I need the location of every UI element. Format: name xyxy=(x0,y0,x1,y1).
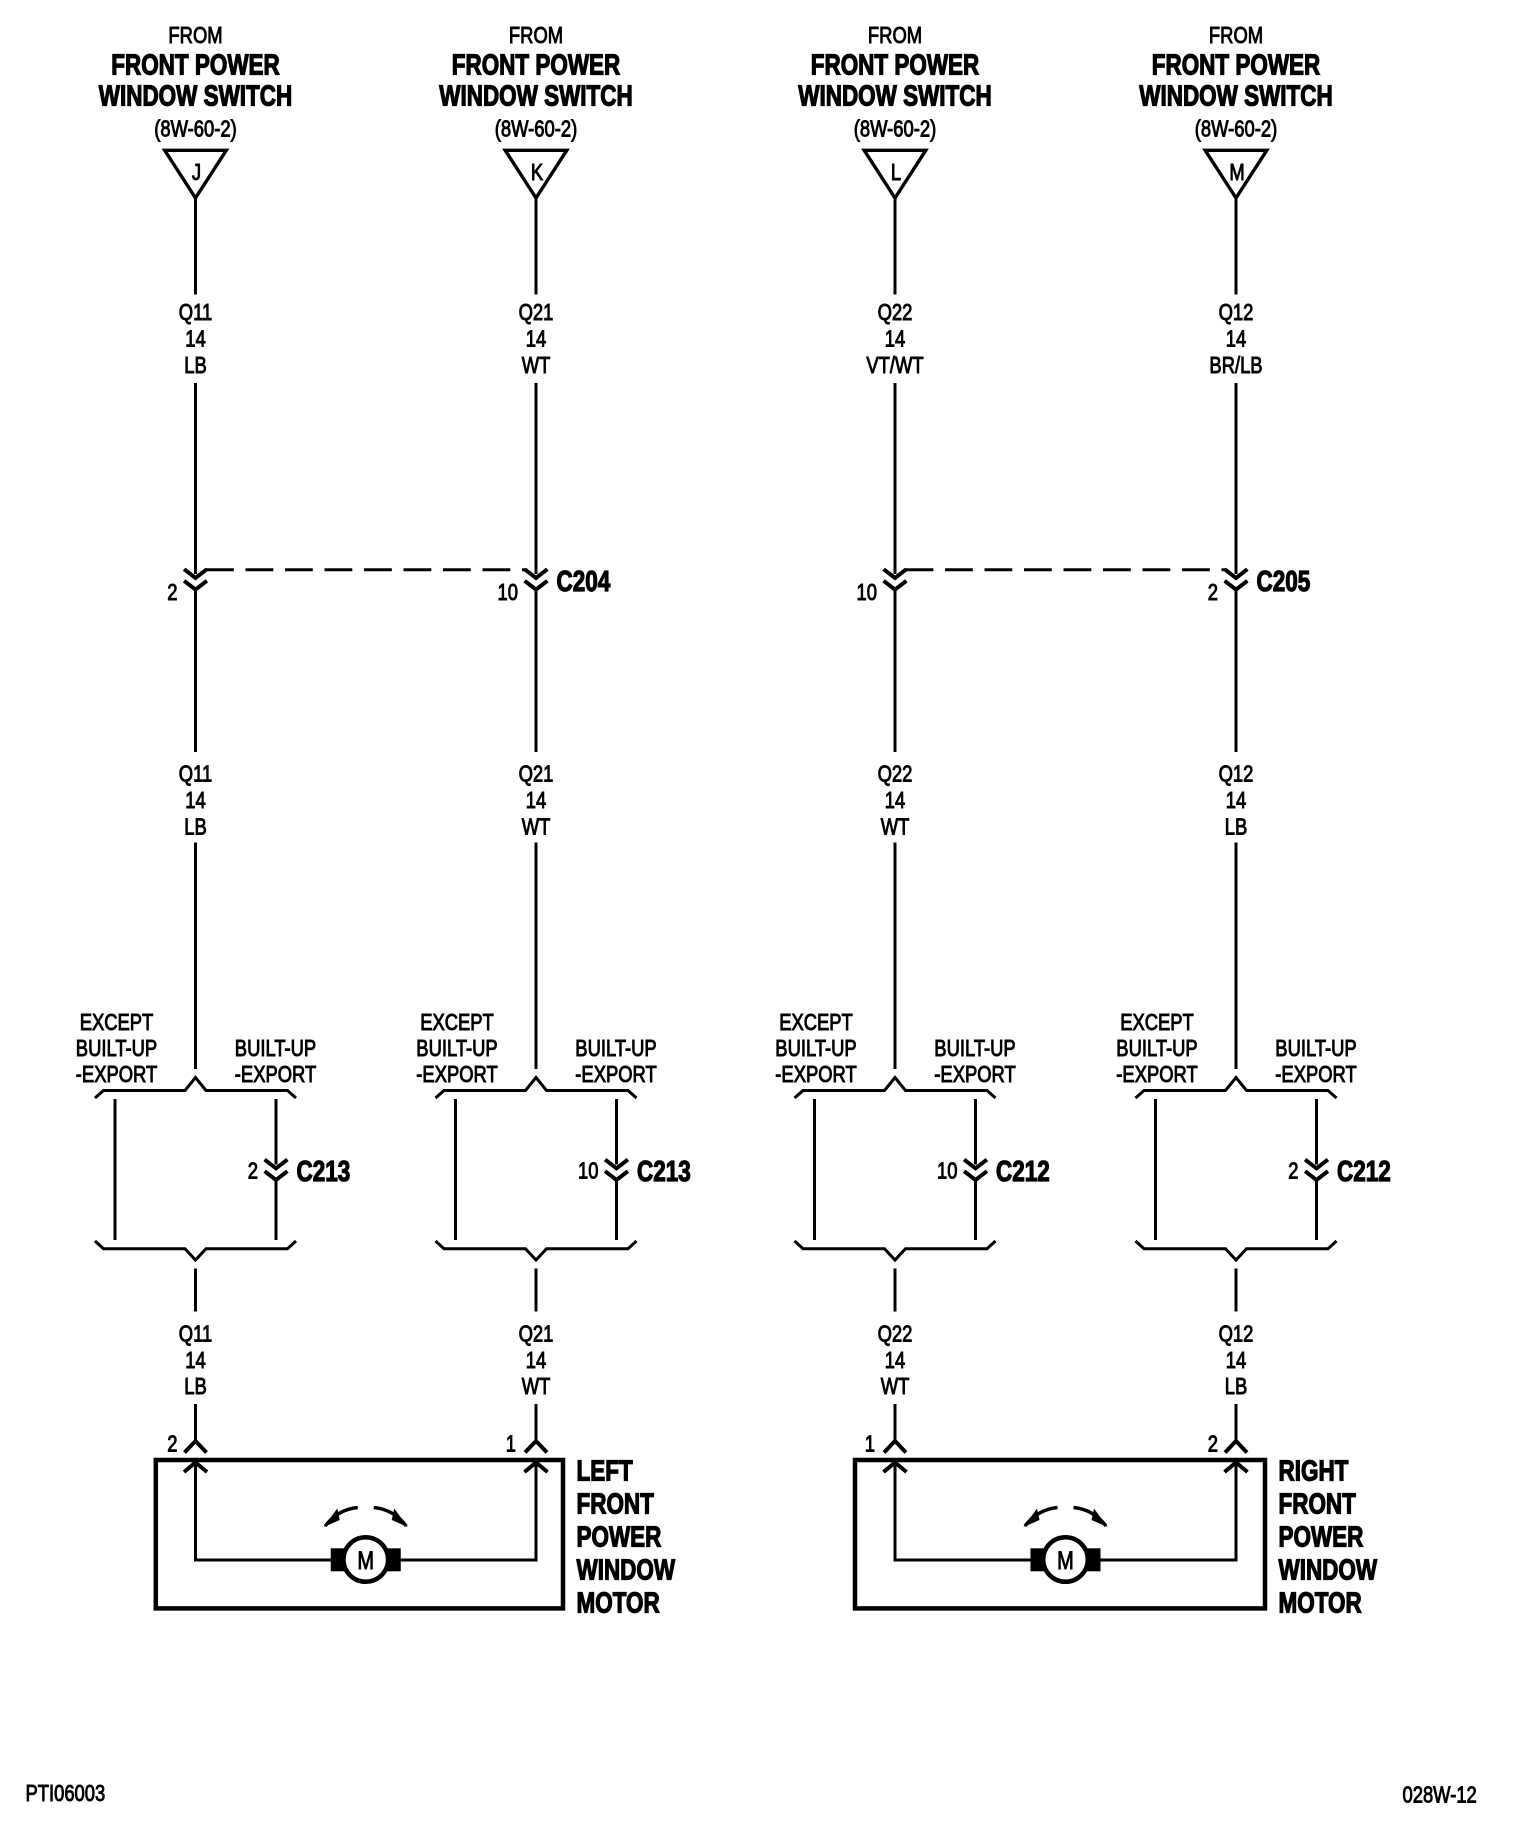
option label EXCEPT BUILT-UP -EXPORT col 3 xyxy=(775,1010,857,1087)
svg-text:028W-12: 028W-12 xyxy=(1403,1783,1477,1808)
svg-text:(8W-60-2): (8W-60-2) xyxy=(495,117,577,142)
svg-text:PTI06003: PTI06003 xyxy=(26,1781,106,1806)
svg-text:14: 14 xyxy=(526,788,546,813)
dashed wire C205 connector row (cols 3-4) xyxy=(906,568,1226,571)
motor pin symbol col 1 xyxy=(185,1441,207,1453)
svg-text:Q11: Q11 xyxy=(179,300,212,325)
split brace (top) col 1 xyxy=(95,1078,296,1099)
wire col 4: connector row to second label xyxy=(1235,590,1238,752)
svg-text:14: 14 xyxy=(885,788,905,813)
wire col 2: merge brace to third label xyxy=(535,1269,538,1312)
svg-text:FROM: FROM xyxy=(509,23,563,48)
svg-text:WINDOW SWITCH: WINDOW SWITCH xyxy=(798,81,991,112)
svg-text:FROM: FROM xyxy=(168,23,222,48)
rotation arrow right (right front motor) xyxy=(1074,1508,1108,1528)
connector name C213 col 2 xyxy=(637,1156,691,1187)
option label BUILT-UP -EXPORT col 1 xyxy=(235,1036,317,1087)
wire label Q12 14 LB (lower) xyxy=(1219,1322,1254,1400)
wire col 3: triangle L to first label xyxy=(894,198,897,295)
svg-text:14: 14 xyxy=(885,327,905,352)
svg-text:14: 14 xyxy=(185,1348,205,1373)
pin number 2 at connector row col 4 xyxy=(1208,580,1218,605)
branch wire (built-up-export) upper col 4 xyxy=(1315,1099,1318,1165)
svg-text:2: 2 xyxy=(1208,1432,1218,1457)
split brace (top) col 2 xyxy=(436,1078,637,1099)
wire label Q11 14 LB (upper) xyxy=(179,300,212,378)
svg-text:J: J xyxy=(192,160,201,185)
svg-text:BR/LB: BR/LB xyxy=(1209,353,1262,378)
sheet code PTI06003 xyxy=(26,1781,106,1806)
connector symbol at C205 col 3 xyxy=(884,569,907,589)
right front power window motor box outline xyxy=(855,1460,1265,1608)
off-page connector triangle M xyxy=(1205,150,1267,198)
option label BUILT-UP -EXPORT col 2 xyxy=(575,1036,657,1087)
svg-text:POWER: POWER xyxy=(577,1522,662,1553)
svg-text:WINDOW: WINDOW xyxy=(1279,1555,1378,1586)
wire label Q12 14 LB (middle) xyxy=(1219,762,1254,840)
pin number 2 at C212 col 4 xyxy=(1288,1159,1298,1184)
option label EXCEPT BUILT-UP -EXPORT col 1 xyxy=(76,1010,158,1087)
svg-text:14: 14 xyxy=(885,1348,905,1373)
motor pin symbol col 3 xyxy=(884,1441,906,1453)
wire inside motor box at x=536 xyxy=(535,1463,538,1561)
wire inside motor box at x=195.5 xyxy=(194,1463,197,1561)
motor pin symbol col 2 xyxy=(525,1441,547,1453)
svg-text:2: 2 xyxy=(1208,580,1218,605)
wire label Q22 14 WT (lower) xyxy=(878,1322,913,1400)
svg-text:10: 10 xyxy=(498,580,518,605)
connector symbol at C212 col 3 xyxy=(964,1160,987,1180)
svg-text:Q11: Q11 xyxy=(179,762,212,787)
svg-text:Q22: Q22 xyxy=(878,300,913,325)
svg-text:10: 10 xyxy=(937,1159,957,1184)
pin number 2 at motor col 1 xyxy=(167,1432,177,1457)
svg-text:C213: C213 xyxy=(297,1156,351,1187)
svg-text:BUILT-UP: BUILT-UP xyxy=(775,1036,856,1061)
svg-text:14: 14 xyxy=(185,327,205,352)
svg-text:POWER: POWER xyxy=(1279,1522,1364,1553)
branch wire (built-up-export) lower col 3 xyxy=(974,1180,977,1240)
svg-text:BUILT-UP: BUILT-UP xyxy=(1275,1036,1356,1061)
svg-text:Q21: Q21 xyxy=(519,762,554,787)
svg-text:-EXPORT: -EXPORT xyxy=(775,1062,857,1087)
svg-text:WT: WT xyxy=(522,815,551,840)
svg-text:BUILT-UP: BUILT-UP xyxy=(416,1036,497,1061)
wire label Q12 14 BR/LB (upper) xyxy=(1209,300,1262,378)
header label FROM FRONT POWER WINDOW SWITCH (8W-60-2) col 4 xyxy=(1139,23,1332,142)
wire col 2: label to connector row xyxy=(535,383,538,574)
component name RIGHT POWER WINDOW MOTOR xyxy=(1279,1456,1378,1619)
option label EXCEPT BUILT-UP -EXPORT col 2 xyxy=(416,1010,498,1087)
component name LEFT POWER WINDOW MOTOR xyxy=(577,1456,676,1619)
svg-text:FRONT POWER: FRONT POWER xyxy=(111,50,280,81)
branch wire (except built-up-export) col 2 xyxy=(454,1099,457,1240)
wire label Q22 14 VT/WT (upper) xyxy=(866,300,923,378)
wire inside motor box: left horizontal xyxy=(194,1559,345,1562)
svg-text:FRONT POWER: FRONT POWER xyxy=(1152,50,1321,81)
wire col 2: second label to split brace xyxy=(535,843,538,1070)
svg-text:LB: LB xyxy=(1225,815,1248,840)
svg-text:Q12: Q12 xyxy=(1219,1322,1254,1347)
wire col 3: second label to split brace xyxy=(894,843,897,1070)
branch wire (except built-up-export) col 3 xyxy=(813,1099,816,1240)
svg-text:14: 14 xyxy=(1226,327,1246,352)
svg-text:-EXPORT: -EXPORT xyxy=(235,1062,317,1087)
svg-text:LB: LB xyxy=(184,1374,207,1399)
option label BUILT-UP -EXPORT col 3 xyxy=(934,1036,1016,1087)
branch wire (built-up-export) upper col 1 xyxy=(275,1099,278,1165)
rotation arrow right (left front motor) xyxy=(374,1508,408,1528)
wire label Q21 14 WT (upper) xyxy=(519,300,554,378)
svg-text:-EXPORT: -EXPORT xyxy=(575,1062,657,1087)
svg-text:1: 1 xyxy=(506,1432,516,1457)
svg-text:LB: LB xyxy=(184,815,207,840)
split brace (top) col 3 xyxy=(795,1078,996,1099)
svg-text:BUILT-UP: BUILT-UP xyxy=(235,1036,316,1061)
svg-text:Q21: Q21 xyxy=(519,300,554,325)
wire col 3: third label to motor pin xyxy=(894,1404,897,1441)
merge brace (bottom) col 4 xyxy=(1136,1241,1337,1260)
svg-text:MOTOR: MOTOR xyxy=(1279,1588,1362,1619)
svg-text:C212: C212 xyxy=(996,1156,1050,1187)
branch wire (built-up-export) upper col 2 xyxy=(615,1099,618,1165)
svg-text:C205: C205 xyxy=(1257,566,1311,597)
motor pin symbol col 4 xyxy=(1225,1441,1247,1453)
svg-text:BUILT-UP: BUILT-UP xyxy=(1116,1036,1197,1061)
svg-text:Q11: Q11 xyxy=(179,1322,212,1347)
svg-text:FROM: FROM xyxy=(868,23,922,48)
svg-text:M: M xyxy=(1057,1547,1074,1575)
svg-text:14: 14 xyxy=(1226,788,1246,813)
motor box entry connector at x=895 xyxy=(884,1463,907,1473)
svg-text:LB: LB xyxy=(1225,1374,1248,1399)
svg-text:2: 2 xyxy=(167,1432,177,1457)
wire col 4: third label to motor pin xyxy=(1235,1404,1238,1441)
wire col 2: third label to motor pin xyxy=(535,1404,538,1441)
off-page connector triangle L xyxy=(864,150,926,198)
wire inside motor box at x=895 xyxy=(894,1463,897,1561)
branch wire (built-up-export) lower col 1 xyxy=(275,1180,278,1240)
svg-text:(8W-60-2): (8W-60-2) xyxy=(854,117,936,142)
svg-text:MOTOR: MOTOR xyxy=(577,1588,660,1619)
pin number 1 at motor col 2 xyxy=(506,1432,516,1457)
svg-text:EXCEPT: EXCEPT xyxy=(420,1010,494,1035)
pin number 10 at C212 col 3 xyxy=(937,1159,957,1184)
svg-text:M: M xyxy=(357,1547,374,1575)
svg-text:Q22: Q22 xyxy=(878,1322,913,1347)
svg-text:14: 14 xyxy=(1226,1348,1246,1373)
pin number 2 at C213 col 1 xyxy=(248,1159,258,1184)
rotation arrow left (right front motor) xyxy=(1024,1508,1058,1528)
wire label Q21 14 WT (middle) xyxy=(519,762,554,840)
header label FROM FRONT POWER WINDOW SWITCH (8W-60-2) col 2 xyxy=(439,23,632,142)
svg-text:-EXPORT: -EXPORT xyxy=(416,1062,498,1087)
rotation arrow left (left front motor) xyxy=(324,1508,358,1528)
wire label Q21 14 WT (lower) xyxy=(519,1322,554,1400)
motor M symbol (right front) xyxy=(1031,1537,1101,1582)
svg-text:M: M xyxy=(1229,160,1244,185)
wire col 3: merge brace to third label xyxy=(894,1269,897,1312)
svg-text:L: L xyxy=(891,160,901,185)
merge brace (bottom) col 3 xyxy=(795,1241,996,1260)
wire label Q11 14 LB (lower) xyxy=(179,1322,212,1400)
pin number 10 at connector row col 2 xyxy=(498,580,518,605)
wire col 4: second label to split brace xyxy=(1235,843,1238,1070)
left front power window motor box outline xyxy=(156,1460,563,1608)
branch wire (built-up-export) lower col 4 xyxy=(1315,1180,1318,1240)
connector name C212 col 4 xyxy=(1337,1156,1391,1187)
connector symbol at C204 col 1 xyxy=(184,569,207,589)
wire col 2: triangle K to first label xyxy=(535,198,538,295)
svg-text:14: 14 xyxy=(526,327,546,352)
wire col 4: label to connector row xyxy=(1235,383,1238,574)
branch wire (except built-up-export) col 1 xyxy=(114,1099,117,1240)
svg-text:(8W-60-2): (8W-60-2) xyxy=(154,117,236,142)
svg-text:LEFT: LEFT xyxy=(577,1456,633,1487)
svg-text:FROM: FROM xyxy=(1209,23,1263,48)
svg-text:EXCEPT: EXCEPT xyxy=(1120,1010,1194,1035)
dashed wire C204 connector row (cols 1-2) xyxy=(206,568,525,571)
connector symbol at C204 col 2 xyxy=(525,569,548,589)
connector name C205 xyxy=(1257,566,1311,597)
svg-text:-EXPORT: -EXPORT xyxy=(76,1062,158,1087)
wire label Q11 14 LB (middle) xyxy=(179,762,212,840)
motor M symbol (left front) xyxy=(331,1537,401,1582)
svg-text:(8W-60-2): (8W-60-2) xyxy=(1195,117,1277,142)
svg-text:Q12: Q12 xyxy=(1219,762,1254,787)
svg-text:FRONT POWER: FRONT POWER xyxy=(452,50,621,81)
motor box entry connector at x=1236 xyxy=(1225,1463,1248,1473)
svg-text:2: 2 xyxy=(167,580,177,605)
svg-text:2: 2 xyxy=(248,1159,258,1184)
svg-text:RIGHT: RIGHT xyxy=(1279,1456,1349,1487)
svg-text:2: 2 xyxy=(1288,1159,1298,1184)
svg-text:-EXPORT: -EXPORT xyxy=(934,1062,1016,1087)
svg-text:C213: C213 xyxy=(637,1156,691,1187)
svg-text:K: K xyxy=(531,160,543,185)
wire inside motor box: right horizontal xyxy=(387,1559,538,1562)
svg-text:BUILT-UP: BUILT-UP xyxy=(575,1036,656,1061)
svg-text:WT: WT xyxy=(522,353,551,378)
sheet code 028W-12 xyxy=(1403,1783,1477,1808)
motor box entry connector at x=195.5 xyxy=(184,1463,207,1473)
svg-text:Q21: Q21 xyxy=(519,1322,554,1347)
svg-text:14: 14 xyxy=(526,1348,546,1373)
split brace (top) col 4 xyxy=(1136,1078,1337,1099)
wire col 3: connector row to second label xyxy=(894,590,897,752)
pin number 2 at connector row col 1 xyxy=(167,580,177,605)
svg-text:EXCEPT: EXCEPT xyxy=(779,1010,853,1035)
pin number 1 at motor col 3 xyxy=(865,1432,875,1457)
connector symbol at C213 col 2 xyxy=(605,1160,628,1180)
connector name C213 col 1 xyxy=(297,1156,351,1187)
wire col 4: triangle M to first label xyxy=(1235,198,1238,295)
svg-text:C212: C212 xyxy=(1337,1156,1391,1187)
wire label Q22 14 WT (middle) xyxy=(878,762,913,840)
wire inside motor box: left horizontal xyxy=(894,1559,1045,1562)
wire col 4: merge brace to third label xyxy=(1235,1269,1238,1312)
svg-text:LB: LB xyxy=(184,353,207,378)
merge brace (bottom) col 1 xyxy=(95,1241,296,1260)
svg-text:WT: WT xyxy=(881,815,910,840)
wire col 1: label to connector row xyxy=(194,383,197,574)
svg-text:FRONT: FRONT xyxy=(1279,1489,1357,1520)
svg-text:10: 10 xyxy=(578,1159,598,1184)
pin number 2 at motor col 4 xyxy=(1208,1432,1218,1457)
wire col 1: second label to split brace xyxy=(194,843,197,1070)
connector name C212 col 3 xyxy=(996,1156,1050,1187)
pin number 10 at C213 col 2 xyxy=(578,1159,598,1184)
branch wire (built-up-export) lower col 2 xyxy=(615,1180,618,1240)
svg-text:Q22: Q22 xyxy=(878,762,913,787)
svg-text:WINDOW SWITCH: WINDOW SWITCH xyxy=(439,81,632,112)
wire col 3: label to connector row xyxy=(894,383,897,574)
connector symbol at C213 col 1 xyxy=(265,1160,288,1180)
svg-text:WINDOW SWITCH: WINDOW SWITCH xyxy=(1139,81,1332,112)
svg-text:BUILT-UP: BUILT-UP xyxy=(76,1036,157,1061)
svg-text:C204: C204 xyxy=(557,566,611,597)
svg-text:VT/WT: VT/WT xyxy=(866,353,923,378)
svg-text:WINDOW SWITCH: WINDOW SWITCH xyxy=(99,81,292,112)
svg-text:-EXPORT: -EXPORT xyxy=(1275,1062,1357,1087)
svg-text:Q12: Q12 xyxy=(1219,300,1254,325)
wire col 1: connector row to second label xyxy=(194,590,197,752)
wire inside motor box: right horizontal xyxy=(1087,1559,1238,1562)
option label EXCEPT BUILT-UP -EXPORT col 4 xyxy=(1116,1010,1198,1087)
header label FROM FRONT POWER WINDOW SWITCH (8W-60-2) col 3 xyxy=(798,23,991,142)
svg-text:WT: WT xyxy=(522,1374,551,1399)
svg-text:EXCEPT: EXCEPT xyxy=(80,1010,154,1035)
connector symbol at C205 col 4 xyxy=(1225,569,1248,589)
pin number 10 at connector row col 3 xyxy=(857,580,877,605)
wire inside motor box at x=1236 xyxy=(1235,1463,1238,1561)
svg-text:10: 10 xyxy=(857,580,877,605)
svg-text:BUILT-UP: BUILT-UP xyxy=(934,1036,1015,1061)
svg-text:-EXPORT: -EXPORT xyxy=(1116,1062,1198,1087)
svg-text:FRONT POWER: FRONT POWER xyxy=(811,50,980,81)
merge brace (bottom) col 2 xyxy=(436,1241,637,1260)
wire col 2: connector row to second label xyxy=(535,590,538,752)
wire col 1: third label to motor pin xyxy=(194,1404,197,1441)
svg-text:WT: WT xyxy=(881,1374,910,1399)
svg-text:1: 1 xyxy=(865,1432,875,1457)
off-page connector triangle J xyxy=(165,150,227,198)
wire col 1: merge brace to third label xyxy=(194,1269,197,1312)
option label BUILT-UP -EXPORT col 4 xyxy=(1275,1036,1357,1087)
motor box entry connector at x=536 xyxy=(525,1463,548,1473)
off-page connector triangle K xyxy=(505,150,567,198)
svg-text:FRONT: FRONT xyxy=(577,1489,655,1520)
wire col 1: triangle J to first label xyxy=(194,198,197,295)
svg-text:WINDOW: WINDOW xyxy=(577,1555,676,1586)
svg-text:14: 14 xyxy=(185,788,205,813)
connector symbol at C212 col 4 xyxy=(1305,1160,1328,1180)
header label FROM FRONT POWER WINDOW SWITCH (8W-60-2) col 1 xyxy=(99,23,292,142)
connector name C204 xyxy=(557,566,611,597)
branch wire (except built-up-export) col 4 xyxy=(1154,1099,1157,1240)
branch wire (built-up-export) upper col 3 xyxy=(974,1099,977,1165)
